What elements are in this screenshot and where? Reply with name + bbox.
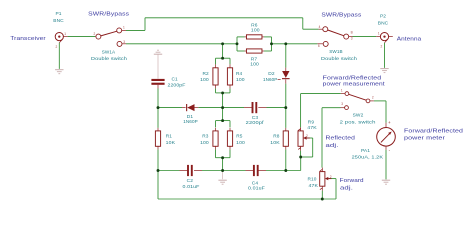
svg-text:3: 3 (123, 40, 125, 44)
svg-text:100: 100 (200, 140, 209, 146)
svg-text:R5: R5 (236, 133, 243, 139)
svg-text:BNC: BNC (53, 18, 64, 24)
svg-text:1: 1 (64, 32, 66, 36)
svg-text:R8: R8 (273, 133, 280, 139)
svg-text:C2: C2 (187, 178, 194, 184)
svg-text:SW1B: SW1B (329, 49, 343, 55)
svg-text:2: 2 (330, 175, 332, 179)
svg-text:SWR/Bypass: SWR/Bypass (321, 13, 361, 19)
svg-text:2: 2 (381, 45, 383, 49)
svg-text:2200pF: 2200pF (168, 82, 186, 88)
svg-text:R10: R10 (308, 176, 317, 182)
svg-text:47K: 47K (309, 183, 319, 189)
svg-text:PA1: PA1 (361, 148, 370, 154)
svg-text:100: 100 (236, 140, 245, 146)
svg-text:0.01uF: 0.01uF (248, 186, 265, 192)
svg-text:6: 6 (318, 44, 320, 48)
svg-text:Antenna: Antenna (397, 37, 422, 43)
svg-text:Double switch: Double switch (321, 56, 357, 62)
svg-text:47K: 47K (307, 125, 317, 131)
svg-text:250uA, 1.2K: 250uA, 1.2K (352, 154, 384, 160)
svg-text:4: 4 (319, 25, 321, 29)
svg-text:SW2: SW2 (353, 112, 364, 118)
svg-text:100: 100 (200, 77, 209, 83)
svg-text:SWR/Bypass: SWR/Bypass (88, 11, 129, 17)
svg-text:D1: D1 (187, 114, 194, 120)
svg-text:R9: R9 (308, 119, 315, 125)
svg-text:1N60P: 1N60P (183, 119, 198, 125)
svg-text:100: 100 (250, 62, 259, 68)
svg-text:R1: R1 (166, 133, 173, 139)
svg-text:100: 100 (236, 77, 245, 83)
svg-text:Forward: Forward (340, 178, 364, 184)
svg-text:BNC: BNC (378, 20, 389, 26)
svg-text:power meter: power meter (404, 136, 445, 142)
svg-text:0.01uF: 0.01uF (183, 184, 200, 190)
svg-text:+: + (388, 120, 391, 125)
svg-text:adj.: adj. (326, 143, 339, 149)
svg-text:1N60P: 1N60P (263, 77, 278, 83)
svg-text:2 pos. switch: 2 pos. switch (340, 119, 376, 125)
svg-text:R4: R4 (236, 71, 243, 77)
svg-text:10K: 10K (270, 140, 280, 146)
svg-text:2: 2 (56, 45, 58, 49)
svg-text:B: B (351, 31, 353, 35)
svg-text:power measurement: power measurement (323, 82, 385, 88)
svg-text:C4: C4 (252, 180, 259, 186)
svg-text:2: 2 (306, 134, 308, 138)
svg-text:SW1A: SW1A (102, 49, 116, 55)
svg-text:1: 1 (341, 88, 343, 92)
svg-text:Reflected: Reflected (326, 135, 356, 141)
svg-text:adj.: adj. (340, 185, 353, 191)
svg-text:2200pf: 2200pf (246, 120, 265, 126)
svg-text:R3: R3 (202, 133, 209, 139)
svg-text:3: 3 (341, 102, 343, 106)
svg-text:R2: R2 (203, 71, 210, 77)
svg-text:P2: P2 (380, 13, 386, 19)
svg-text:C1: C1 (172, 76, 179, 82)
svg-text:100: 100 (251, 28, 260, 34)
svg-text:1: 1 (378, 32, 380, 36)
svg-text:10K: 10K (166, 140, 176, 146)
svg-text:2: 2 (94, 32, 96, 36)
svg-text:Forward/Reflected: Forward/Reflected (404, 128, 463, 134)
svg-text:D2: D2 (268, 71, 275, 77)
svg-text:1: 1 (123, 25, 125, 29)
svg-text:Double switch: Double switch (91, 56, 127, 62)
svg-text:2: 2 (372, 95, 374, 99)
svg-text:Transceiver: Transceiver (10, 36, 46, 42)
svg-text:P1: P1 (55, 11, 61, 17)
svg-text:3: 3 (351, 36, 353, 40)
